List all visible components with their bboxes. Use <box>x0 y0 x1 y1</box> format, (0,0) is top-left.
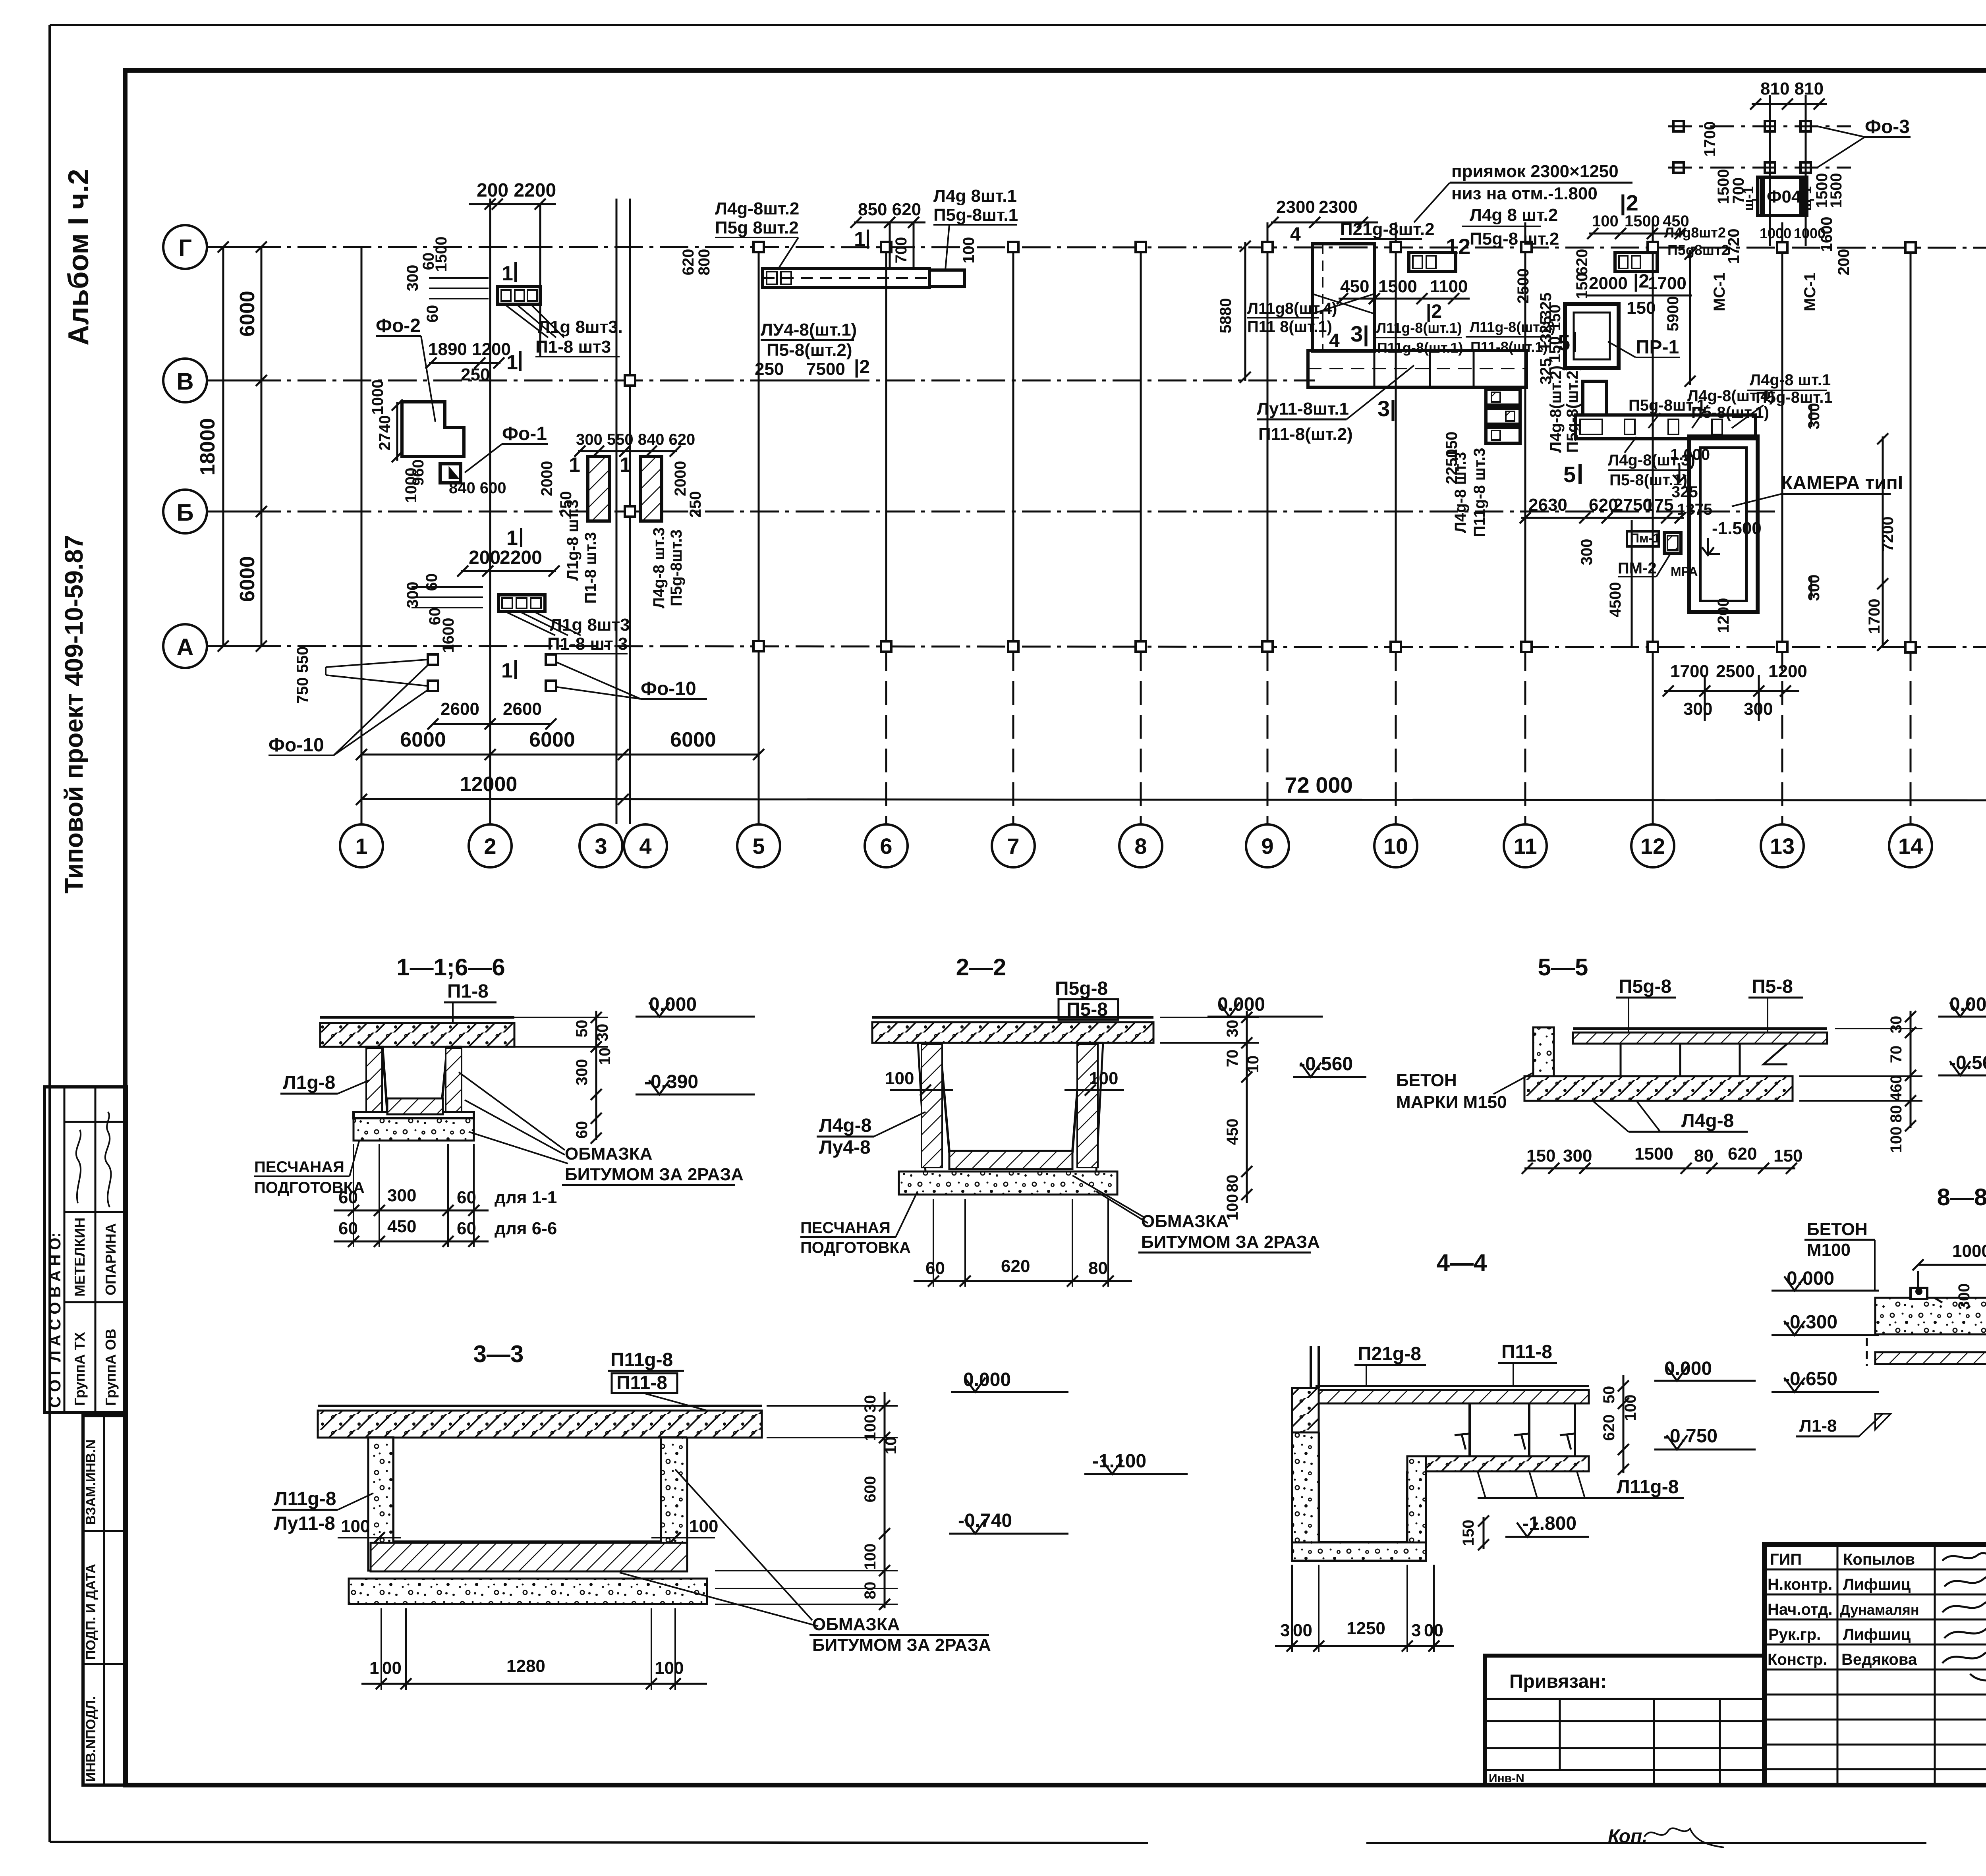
svg-text:810 810: 810 810 <box>1760 79 1824 98</box>
svg-text:2000: 2000 <box>1589 274 1628 293</box>
svg-text:Фо-10: Фо-10 <box>641 678 696 699</box>
svg-text:П5g-8(шт.2): П5g-8(шт.2) <box>1564 365 1581 453</box>
svg-text:5: 5 <box>1558 330 1570 355</box>
svg-text:ГруппА ТХ: ГруппА ТХ <box>71 1332 88 1406</box>
svg-text:50: 50 <box>1600 1386 1618 1404</box>
svg-text:620: 620 <box>680 249 697 276</box>
svg-text:0.000: 0.000 <box>963 1369 1011 1390</box>
svg-text:П5g-8шт.1: П5g-8шт.1 <box>933 205 1018 225</box>
svg-text:300: 300 <box>1578 539 1596 566</box>
svg-text:Нач.отд.: Нач.отд. <box>1768 1601 1832 1618</box>
svg-text:1: 1 <box>355 834 367 859</box>
svg-text:13: 13 <box>1770 834 1795 859</box>
svg-text:5: 5 <box>752 834 765 859</box>
svg-text:100: 100 <box>689 1517 718 1536</box>
svg-text:60: 60 <box>424 305 441 323</box>
svg-text:1500: 1500 <box>1634 1144 1673 1164</box>
svg-text:0.000: 0.000 <box>1664 1358 1712 1379</box>
svg-text:Л1g-8 шт.3: Л1g-8 шт.3 <box>564 500 582 581</box>
svg-text:Лу11-8: Лу11-8 <box>274 1513 335 1534</box>
svg-text:1: 1 <box>569 454 580 477</box>
svg-text:0.000: 0.000 <box>1787 1268 1834 1289</box>
svg-text:60: 60 <box>338 1219 358 1238</box>
svg-text:Привязан:: Привязан: <box>1509 1671 1607 1692</box>
svg-text:П5g-8: П5g-8 <box>1055 978 1108 999</box>
svg-text:Л1-8: Л1-8 <box>1799 1416 1837 1436</box>
svg-text:Л4g-8шт.2: Л4g-8шт.2 <box>715 199 799 218</box>
svg-text:П21g-8: П21g-8 <box>1358 1343 1421 1365</box>
svg-text:8: 8 <box>1134 834 1147 859</box>
svg-text:ВЗАМ.ИНВ.N: ВЗАМ.ИНВ.N <box>83 1440 99 1525</box>
svg-text:|2: |2 <box>854 357 870 378</box>
svg-text:300: 300 <box>1563 1146 1592 1166</box>
svg-text:150: 150 <box>1460 1520 1477 1546</box>
svg-text:14: 14 <box>1898 834 1923 859</box>
svg-text:Л4g-8 шт.1: Л4g-8 шт.1 <box>1750 371 1831 389</box>
svg-text:П11-8: П11-8 <box>1501 1341 1552 1363</box>
svg-text:11: 11 <box>1513 834 1537 859</box>
svg-text:ПОДП. И ДАТА: ПОДП. И ДАТА <box>83 1564 99 1660</box>
svg-text:1100: 1100 <box>1430 277 1468 296</box>
svg-text:7500: 7500 <box>806 359 845 379</box>
svg-text:2600: 2600 <box>503 699 542 719</box>
svg-text:72 000: 72 000 <box>1285 772 1352 797</box>
svg-text:БИТУМОМ ЗА 2РАЗА: БИТУМОМ ЗА 2РАЗА <box>1141 1232 1320 1252</box>
svg-text:30: 30 <box>1887 1016 1905 1034</box>
svg-text:Л11g8(шт.4): Л11g8(шт.4) <box>1247 300 1337 317</box>
svg-text:1250: 1250 <box>1347 1619 1385 1638</box>
svg-text:5—5: 5—5 <box>1538 954 1588 980</box>
svg-text:30: 30 <box>594 1024 611 1042</box>
svg-text:1: 1 <box>506 527 518 550</box>
svg-text:1500: 1500 <box>433 237 450 272</box>
svg-text:ПОДГОТОВКА: ПОДГОТОВКА <box>800 1239 911 1256</box>
svg-text:700: 700 <box>893 237 910 264</box>
svg-text:3: 3 <box>1411 1621 1421 1640</box>
svg-text:Дунамалян: Дунамалян <box>1840 1602 1919 1618</box>
svg-text:-1.500: -1.500 <box>1712 519 1762 538</box>
svg-text:100: 100 <box>655 1658 684 1678</box>
svg-text:Л11g-8(шт.1): Л11g-8(шт.1) <box>1376 320 1462 336</box>
svg-text:1000: 1000 <box>1760 225 1791 241</box>
svg-text:В: В <box>176 368 193 395</box>
svg-text:5900: 5900 <box>1664 296 1682 332</box>
svg-text:ГИП: ГИП <box>1770 1551 1802 1568</box>
svg-text:низ на отм.-1.800: низ на отм.-1.800 <box>1451 184 1598 203</box>
svg-text:9: 9 <box>1261 834 1273 859</box>
svg-text:П11g-8(шт.1): П11g-8(шт.1) <box>1377 340 1463 356</box>
svg-text:150: 150 <box>1627 298 1656 318</box>
svg-text:450: 450 <box>1340 277 1369 296</box>
svg-text:250: 250 <box>461 365 490 384</box>
svg-text:ГруппА ОВ: ГруппА ОВ <box>102 1329 119 1406</box>
svg-text:МЕТЕЛКИН: МЕТЕЛКИН <box>71 1218 88 1297</box>
svg-text:10: 10 <box>1383 834 1408 859</box>
svg-text:2300: 2300 <box>1276 197 1315 217</box>
svg-text:Инв-N: Инв-N <box>1489 1772 1524 1785</box>
svg-text:100: 100 <box>1592 212 1619 230</box>
svg-text:0.000: 0.000 <box>1217 994 1265 1015</box>
svg-text:600: 600 <box>862 1476 879 1503</box>
svg-text:1700: 1700 <box>1670 662 1709 681</box>
svg-text:Л4g-8: Л4g-8 <box>819 1115 871 1136</box>
svg-text:2000: 2000 <box>672 461 689 496</box>
svg-text:4—4: 4—4 <box>1437 1249 1487 1276</box>
svg-text:П11-8: П11-8 <box>616 1372 667 1393</box>
svg-text:100: 100 <box>960 237 978 264</box>
svg-text:П5g-8 шт.2: П5g-8 шт.2 <box>1470 229 1559 249</box>
svg-text:1600: 1600 <box>440 618 457 653</box>
svg-text:3: 3 <box>595 834 607 859</box>
svg-text:80: 80 <box>862 1582 879 1600</box>
svg-text:П1-8 шт 3: П1-8 шт 3 <box>547 634 628 654</box>
svg-text:100: 100 <box>885 1069 914 1088</box>
svg-text:для 1-1: для 1-1 <box>495 1188 557 1207</box>
svg-text:2: 2 <box>484 834 496 859</box>
svg-text:Лу4-8: Лу4-8 <box>819 1137 871 1158</box>
svg-text:ПЕСЧАНАЯ: ПЕСЧАНАЯ <box>254 1158 344 1176</box>
svg-text:200 2200: 200 2200 <box>477 180 556 201</box>
svg-text:150: 150 <box>1546 305 1564 331</box>
svg-text:1000: 1000 <box>369 380 386 415</box>
svg-text:150: 150 <box>1526 1146 1555 1166</box>
svg-text:БИТУМОМ ЗА 2РАЗА: БИТУМОМ ЗА 2РАЗА <box>812 1635 991 1655</box>
svg-text:4: 4 <box>1290 224 1301 245</box>
svg-text:ПР-1: ПР-1 <box>1636 337 1679 358</box>
svg-text:1700: 1700 <box>1648 274 1687 293</box>
svg-text:00: 00 <box>382 1658 402 1678</box>
svg-text:620: 620 <box>1001 1256 1030 1276</box>
svg-text:4500: 4500 <box>1607 582 1624 618</box>
svg-text:80: 80 <box>1224 1175 1241 1193</box>
svg-text:5: 5 <box>1563 462 1576 487</box>
svg-text:|2: |2 <box>1426 301 1442 322</box>
svg-text:1—1;6—6: 1—1;6—6 <box>396 954 505 980</box>
svg-text:Л4g-8(шт.2): Л4g-8(шт.2) <box>1547 365 1565 453</box>
svg-text:2—2: 2—2 <box>956 954 1007 980</box>
svg-text:С О Г Л А С О В А Н О:: С О Г Л А С О В А Н О: <box>46 1232 64 1408</box>
svg-text:7: 7 <box>1007 834 1019 859</box>
svg-text:2200: 2200 <box>500 547 542 568</box>
svg-text:П5g8шт2: П5g8шт2 <box>1667 242 1729 258</box>
svg-text:Констр.: Констр. <box>1768 1651 1827 1668</box>
svg-text:|2: |2 <box>1620 190 1638 216</box>
svg-text:60: 60 <box>338 1188 358 1207</box>
svg-text:100: 100 <box>1622 1395 1639 1421</box>
svg-text:2740: 2740 <box>376 415 394 451</box>
svg-text:Б: Б <box>176 499 193 526</box>
svg-text:325: 325 <box>1671 483 1698 501</box>
svg-text:250: 250 <box>687 491 704 518</box>
svg-text:Пм-1: Пм-1 <box>1630 531 1660 545</box>
svg-text:100: 100 <box>1224 1194 1241 1221</box>
svg-text:Фо-3: Фо-3 <box>1865 116 1910 137</box>
svg-text:М100: М100 <box>1807 1240 1851 1260</box>
svg-text:Лифшиц: Лифшиц <box>1843 1576 1911 1593</box>
svg-text:300 550 840 620: 300 550 840 620 <box>576 431 695 448</box>
svg-text:ИНВ.NПОДЛ.: ИНВ.NПОДЛ. <box>83 1696 99 1782</box>
svg-text:П5g-8шт.3: П5g-8шт.3 <box>668 529 685 606</box>
svg-text:МС-1: МС-1 <box>1711 272 1728 311</box>
svg-text:П5-8: П5-8 <box>1752 976 1793 997</box>
svg-text:БЕТОН: БЕТОН <box>1396 1071 1457 1090</box>
svg-text:4: 4 <box>1329 330 1340 351</box>
svg-text:Фо-10: Фо-10 <box>269 735 324 756</box>
svg-text:620: 620 <box>1573 249 1591 276</box>
svg-text:ЛУ4-8(шт.1): ЛУ4-8(шт.1) <box>761 320 857 340</box>
svg-text:2500: 2500 <box>1515 268 1532 304</box>
svg-text:1000: 1000 <box>1952 1241 1986 1261</box>
svg-text:200: 200 <box>469 547 500 568</box>
svg-text:КАМЕРА типI: КАМЕРА типI <box>1781 473 1903 494</box>
svg-text:для 6-6: для 6-6 <box>495 1219 557 1238</box>
svg-text:1200: 1200 <box>1768 662 1807 681</box>
svg-text:12000: 12000 <box>460 773 518 796</box>
svg-text:300: 300 <box>1805 575 1823 601</box>
svg-text:1.000: 1.000 <box>1670 446 1710 463</box>
svg-text:Альбом I ч.2: Альбом I ч.2 <box>63 169 95 345</box>
svg-text:100: 100 <box>862 1544 879 1570</box>
svg-text:300: 300 <box>387 1186 416 1205</box>
svg-text:100: 100 <box>1089 1069 1118 1088</box>
svg-text:ОБМАЗКА: ОБМАЗКА <box>565 1144 652 1164</box>
svg-text:2000: 2000 <box>538 461 556 496</box>
svg-text:300: 300 <box>404 582 421 608</box>
svg-text:МРА: МРА <box>1671 564 1698 579</box>
svg-text:1700: 1700 <box>1701 122 1719 157</box>
svg-text:700: 700 <box>1730 178 1747 204</box>
svg-text:Л11g-8: Л11g-8 <box>1617 1476 1679 1498</box>
svg-text:2300: 2300 <box>1319 197 1358 217</box>
svg-text:800: 800 <box>695 249 713 276</box>
svg-text:80: 80 <box>1887 1105 1905 1123</box>
svg-text:Л4g 8 шт.2: Л4g 8 шт.2 <box>1470 205 1558 225</box>
svg-text:80: 80 <box>1088 1258 1108 1278</box>
svg-text:00: 00 <box>1293 1621 1312 1640</box>
svg-text:6000: 6000 <box>400 728 446 751</box>
svg-text:П11g-8 шт.3: П11g-8 шт.3 <box>1471 448 1488 537</box>
svg-text:60: 60 <box>925 1258 945 1278</box>
svg-text:50: 50 <box>573 1020 591 1038</box>
svg-text:1: 1 <box>369 1658 379 1678</box>
svg-text:300: 300 <box>1805 403 1823 430</box>
svg-text:Лу11-8шт.1: Лу11-8шт.1 <box>1257 399 1349 419</box>
svg-text:1600: 1600 <box>1818 217 1835 252</box>
svg-text:1: 1 <box>501 659 513 682</box>
svg-text:6000: 6000 <box>236 556 259 602</box>
svg-text:1: 1 <box>854 228 865 251</box>
svg-text:850 620: 850 620 <box>858 200 921 219</box>
svg-text:10: 10 <box>1244 1056 1262 1073</box>
svg-text:60: 60 <box>423 573 440 591</box>
svg-text:ОПАРИНА: ОПАРИНА <box>102 1223 119 1295</box>
svg-text:70: 70 <box>1224 1050 1241 1067</box>
svg-text:ОБМАЗКА: ОБМАЗКА <box>1141 1212 1229 1231</box>
svg-text:460: 460 <box>1887 1075 1905 1102</box>
svg-text:Л11g-8: Л11g-8 <box>274 1488 336 1509</box>
svg-text:Л4g-8: Л4g-8 <box>1681 1110 1734 1131</box>
svg-text:150: 150 <box>1773 1146 1802 1166</box>
svg-text:6000: 6000 <box>529 728 575 751</box>
svg-text:300: 300 <box>1683 699 1712 719</box>
svg-text:3|: 3| <box>1350 321 1369 347</box>
svg-text:10: 10 <box>882 1437 900 1455</box>
svg-text:П1-8: П1-8 <box>447 981 489 1002</box>
svg-text:750 550: 750 550 <box>294 647 311 704</box>
svg-text:2500: 2500 <box>1716 662 1755 681</box>
svg-text:Л1g-8: Л1g-8 <box>283 1072 335 1093</box>
svg-text:300: 300 <box>404 265 421 291</box>
svg-text:БЕТОН: БЕТОН <box>1807 1220 1868 1239</box>
svg-text:300: 300 <box>573 1059 591 1086</box>
svg-text:МАРКИ М150: МАРКИ М150 <box>1396 1092 1507 1112</box>
svg-text:А: А <box>176 634 193 660</box>
svg-text:П11 8(шт.1): П11 8(шт.1) <box>1247 318 1332 336</box>
svg-text:-0.560: -0.560 <box>1949 1052 1986 1073</box>
svg-text:1200: 1200 <box>1715 598 1732 633</box>
svg-text:6: 6 <box>880 834 892 859</box>
svg-text:П1-8 шт3: П1-8 шт3 <box>535 337 611 357</box>
svg-text:30: 30 <box>1224 1020 1241 1038</box>
svg-text:3|: 3| <box>1377 396 1396 421</box>
svg-text:450: 450 <box>1224 1119 1241 1145</box>
svg-text:1720: 1720 <box>1725 229 1743 264</box>
svg-text:300: 300 <box>1955 1283 1973 1310</box>
svg-text:70: 70 <box>1887 1046 1905 1063</box>
svg-text:12: 12 <box>1640 834 1665 859</box>
svg-text:100: 100 <box>1887 1127 1905 1153</box>
svg-text:П11g-8: П11g-8 <box>610 1349 673 1370</box>
svg-text:П11-8(шт.2): П11-8(шт.2) <box>1258 425 1353 444</box>
svg-text:Н.контр.: Н.контр. <box>1768 1576 1832 1593</box>
svg-text:2600: 2600 <box>440 699 479 719</box>
svg-text:620: 620 <box>1600 1415 1618 1441</box>
svg-text:6000: 6000 <box>236 291 259 337</box>
svg-text:Рук.гр.: Рук.гр. <box>1768 1626 1821 1643</box>
svg-text:2630: 2630 <box>1528 495 1567 515</box>
svg-text:Копылов: Копылов <box>1843 1551 1915 1568</box>
svg-text:ОБМАЗКА: ОБМАЗКА <box>812 1615 900 1634</box>
svg-text:МС-1: МС-1 <box>1801 272 1819 311</box>
svg-text:П21g-8шт.2: П21g-8шт.2 <box>1340 220 1435 239</box>
svg-text:П11-8(шт.1): П11-8(шт.1) <box>1470 339 1547 355</box>
svg-text:1000: 1000 <box>402 468 420 503</box>
svg-text:Ф04: Ф04 <box>1767 187 1801 207</box>
svg-text:250: 250 <box>755 359 784 379</box>
svg-text:П5g-8: П5g-8 <box>1619 976 1671 997</box>
svg-text:175: 175 <box>1644 495 1673 515</box>
svg-text:Фо-2: Фо-2 <box>376 315 421 336</box>
svg-text:-1.100: -1.100 <box>1092 1451 1146 1472</box>
svg-text:Л4g-8 шт.3: Л4g-8 шт.3 <box>650 527 668 608</box>
svg-text:П5-8(шт.2): П5-8(шт.2) <box>767 340 852 360</box>
svg-text:ПМ-2: ПМ-2 <box>1618 560 1657 577</box>
svg-text:450: 450 <box>387 1217 416 1236</box>
svg-text:ПЕСЧАНАЯ: ПЕСЧАНАЯ <box>800 1219 891 1237</box>
svg-text:П5-8: П5-8 <box>1066 999 1108 1020</box>
svg-text:1500: 1500 <box>1828 173 1845 208</box>
svg-text:-0.390: -0.390 <box>644 1071 698 1092</box>
svg-text:2250: 2250 <box>1443 449 1461 484</box>
svg-text:80: 80 <box>1694 1146 1714 1166</box>
svg-text:Фо-1: Фо-1 <box>502 423 547 444</box>
svg-text:4: 4 <box>639 834 651 859</box>
svg-text:Г: Г <box>178 235 192 261</box>
svg-text:|2: |2 <box>1633 271 1649 292</box>
svg-text:1890 1200: 1890 1200 <box>428 340 511 359</box>
svg-text:60: 60 <box>573 1121 591 1139</box>
svg-text:Ведякова: Ведякова <box>1841 1651 1917 1668</box>
svg-text:200: 200 <box>1835 249 1853 276</box>
svg-text:1500: 1500 <box>1378 277 1417 296</box>
svg-text:БИТУМОМ ЗА 2РАЗА: БИТУМОМ ЗА 2РАЗА <box>565 1165 744 1184</box>
svg-text:8—8: 8—8 <box>1937 1184 1986 1210</box>
svg-text:3—3: 3—3 <box>473 1341 524 1367</box>
svg-text:10: 10 <box>596 1048 614 1065</box>
svg-text:1: 1 <box>620 454 631 477</box>
svg-text:приямок 2300×1250: приямок 2300×1250 <box>1451 162 1619 181</box>
svg-text:щ-1: щ-1 <box>1798 186 1814 211</box>
svg-text:П5g 8шт.2: П5g 8шт.2 <box>715 218 799 237</box>
svg-text:30: 30 <box>862 1395 879 1413</box>
svg-text:18000: 18000 <box>196 418 219 476</box>
svg-text:1700: 1700 <box>1866 599 1883 634</box>
svg-text:Л4g 8шт.1: Л4g 8шт.1 <box>933 186 1017 206</box>
svg-text:Л4g8шт2: Л4g8шт2 <box>1664 224 1726 241</box>
svg-text:12: 12 <box>1446 234 1470 259</box>
svg-text:3: 3 <box>1280 1621 1290 1640</box>
svg-text:5880: 5880 <box>1217 298 1234 334</box>
svg-text:620: 620 <box>1728 1144 1757 1164</box>
svg-text:100: 100 <box>341 1517 370 1536</box>
svg-text:6000: 6000 <box>670 728 716 751</box>
svg-text:Коп.: Коп. <box>1608 1826 1653 1847</box>
svg-text:1: 1 <box>502 262 513 285</box>
svg-text:1280: 1280 <box>506 1656 545 1676</box>
svg-text:П1-8 шт.3: П1-8 шт.3 <box>582 532 599 604</box>
svg-text:Типовой проект 409-10-59.87: Типовой проект 409-10-59.87 <box>60 535 88 894</box>
svg-text:Лифшиц: Лифшиц <box>1843 1626 1911 1643</box>
